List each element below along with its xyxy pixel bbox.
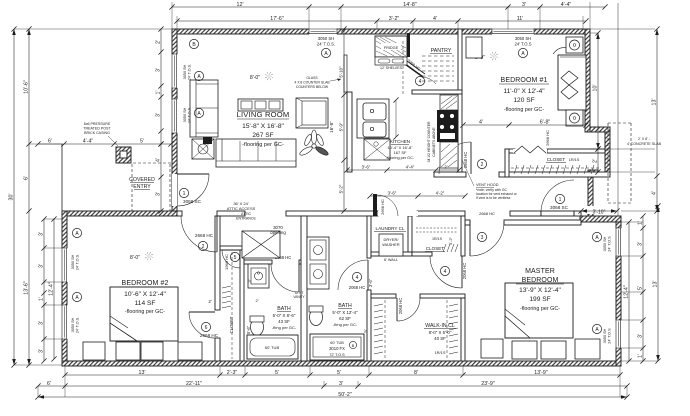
svg-text:6': 6' bbox=[24, 176, 30, 180]
svg-text:FRIDGE: FRIDGE bbox=[384, 46, 399, 50]
svg-text:TREATED POST: TREATED POST bbox=[83, 127, 111, 131]
dim bottom row1 bbox=[65, 374, 620, 376]
master bath vanity bbox=[307, 237, 329, 289]
fridge bbox=[375, 36, 407, 57]
svg-text:24' T.O.S.: 24' T.O.S. bbox=[76, 317, 80, 333]
side table bbox=[192, 139, 214, 159]
svg-text:3050 SH: 3050 SH bbox=[603, 236, 607, 251]
svg-text:2668 HC: 2668 HC bbox=[380, 199, 385, 215]
svg-text:1960 HC: 1960 HC bbox=[224, 254, 229, 270]
svg-text:VANITY: VANITY bbox=[293, 295, 305, 299]
fridge shelf bbox=[375, 57, 407, 65]
svg-text:2': 2' bbox=[593, 159, 599, 163]
svg-text:KITCHEN: KITCHEN bbox=[390, 139, 410, 144]
svg-text:1R/1S: 1R/1S bbox=[434, 350, 445, 355]
door 4b label bbox=[440, 266, 449, 275]
kitchen sink basin 2 bbox=[363, 122, 386, 137]
kitchen pass-through counter bbox=[344, 55, 347, 92]
svg-text:5': 5' bbox=[140, 139, 144, 145]
svg-text:10'-6" X 12'-4": 10'-6" X 12'-4" bbox=[124, 291, 166, 298]
dim hall bbox=[370, 195, 465, 197]
svg-text:24' T.O.S.: 24' T.O.S. bbox=[188, 64, 192, 80]
svg-text:PANTRY: PANTRY bbox=[431, 48, 452, 54]
dim porch bbox=[38, 143, 171, 145]
svg-text:3': 3' bbox=[39, 349, 45, 353]
svg-text:BEDROOM #2: BEDROOM #2 bbox=[122, 280, 169, 287]
exterior wall: back door east bbox=[588, 170, 593, 216]
porch dashed lines bbox=[118, 162, 172, 164]
svg-text:GLASS: GLASS bbox=[306, 76, 318, 80]
exterior wall: west upper (living room) bbox=[172, 29, 177, 216]
svg-text:4: 4 bbox=[419, 79, 422, 85]
svg-text:4 X 8 COUNTER SLAB: 4 X 8 COUNTER SLAB bbox=[294, 81, 330, 85]
svg-text:3050 SH: 3050 SH bbox=[603, 328, 607, 343]
window labels bedroom2 west bbox=[72, 228, 81, 237]
svg-text:50'-2": 50'-2" bbox=[338, 392, 352, 398]
svg-text:5': 5' bbox=[638, 286, 644, 290]
interior wall: closet south segment bbox=[412, 252, 432, 256]
window labels master east bbox=[592, 232, 601, 241]
svg-text:ATTIC ACCESS: ATTIC ACCESS bbox=[227, 206, 256, 211]
interior wall: laundry south bbox=[371, 252, 412, 256]
svg-text:4': 4' bbox=[652, 191, 658, 195]
svg-text:3'-6": 3'-6" bbox=[388, 191, 397, 196]
svg-text:5'-0" X 8'-6": 5'-0" X 8'-6" bbox=[273, 313, 296, 318]
svg-text:ENTRY: ENTRY bbox=[133, 184, 151, 190]
svg-text:3'-6": 3'-6" bbox=[368, 278, 373, 287]
interior wall: walkin north east part bbox=[420, 294, 465, 298]
door: pantry angled bbox=[405, 64, 423, 77]
svg-text:4'-2": 4'-2" bbox=[436, 191, 445, 196]
svg-text:3': 3' bbox=[247, 279, 252, 282]
door 4 label bbox=[352, 272, 361, 281]
svg-text:BRICK CASING: BRICK CASING bbox=[84, 131, 110, 135]
svg-text:30': 30' bbox=[9, 194, 15, 201]
svg-text:13'-9" X 12'-4": 13'-9" X 12'-4" bbox=[519, 287, 561, 294]
svg-text:8'-0": 8'-0" bbox=[250, 75, 260, 81]
door 1 label bbox=[179, 188, 188, 197]
interior wall: bedroom1 closet north west part bbox=[505, 149, 515, 153]
svg-text:1': 1' bbox=[156, 91, 162, 95]
svg-text:167 SF: 167 SF bbox=[394, 150, 407, 155]
svg-text:6x6 PRESSURE: 6x6 PRESSURE bbox=[84, 122, 111, 126]
attic access box bbox=[242, 231, 280, 258]
svg-text:16'-8": 16'-8" bbox=[329, 121, 334, 133]
svg-text:ENTRANCE: ENTRANCE bbox=[236, 217, 256, 221]
armchair bbox=[296, 98, 328, 128]
door 6: bedroom2 closet bbox=[189, 311, 215, 313]
svg-text:4: 4 bbox=[356, 275, 359, 281]
door 3 label bbox=[477, 232, 486, 241]
svg-text:62 SF: 62 SF bbox=[339, 316, 351, 321]
door 4: master bath bbox=[367, 260, 369, 290]
svg-text:43 SF: 43 SF bbox=[278, 319, 290, 324]
bedroom1 bed bbox=[558, 55, 586, 110]
svg-text:1: 1 bbox=[559, 197, 562, 203]
bedroom1 closet hangers bbox=[514, 165, 517, 174]
washer dryer bbox=[379, 234, 403, 256]
window: bedroom2 west lower bbox=[62, 305, 68, 339]
svg-text:-flooring per GC-: -flooring per GC- bbox=[520, 306, 560, 312]
svg-text:2068 HC: 2068 HC bbox=[398, 298, 403, 315]
svg-text:3': 3' bbox=[339, 381, 343, 387]
interior wall: back door south segment bbox=[510, 211, 541, 216]
svg-text:1R/1S: 1R/1S bbox=[432, 237, 443, 241]
walkin hangers west bbox=[374, 304, 383, 306]
sectional sofa bbox=[216, 139, 296, 167]
right extenders bbox=[590, 32, 598, 34]
exterior wall: NE jog top bbox=[585, 127, 610, 132]
svg-text:MASTER: MASTER bbox=[525, 268, 555, 275]
dim extension line right bbox=[617, 3, 619, 216]
svg-text:2' X 8' -: 2' X 8' - bbox=[638, 137, 651, 141]
svg-text:2668 HC: 2668 HC bbox=[479, 211, 495, 216]
svg-text:B: B bbox=[352, 343, 355, 348]
svg-text:3': 3' bbox=[638, 334, 644, 338]
svg-text:1': 1' bbox=[638, 354, 644, 358]
svg-text:6': 6' bbox=[48, 139, 52, 145]
bedroom1 dresser bbox=[466, 37, 482, 58]
bedroom1 nightstands bbox=[566, 37, 583, 53]
svg-text:3050 SH: 3050 SH bbox=[183, 107, 187, 122]
dishwasher bbox=[364, 139, 390, 160]
exterior wall: top bbox=[172, 29, 590, 34]
window: master east lower bbox=[616, 320, 622, 348]
dim right 2ft bbox=[597, 149, 599, 172]
svg-text:24' T.O.S.: 24' T.O.S. bbox=[317, 42, 335, 47]
dim left chain2 bbox=[28, 29, 30, 365]
svg-text:4: 4 bbox=[444, 269, 447, 275]
kitchen sink basin 1 bbox=[363, 103, 386, 120]
fridge wall stub bbox=[407, 33, 410, 57]
svg-text:2': 2' bbox=[208, 299, 211, 304]
svg-text:COUNTERS BELOW: COUNTERS BELOW bbox=[296, 85, 329, 89]
svg-text:BATH: BATH bbox=[277, 306, 291, 312]
svg-text:8'-0": 8'-0" bbox=[130, 255, 140, 261]
svg-text:5: 5 bbox=[234, 255, 237, 261]
svg-text:3050 SH: 3050 SH bbox=[71, 317, 75, 332]
svg-text:4': 4' bbox=[156, 158, 162, 162]
svg-text:3': 3' bbox=[156, 68, 162, 72]
svg-text:5'-0" X 12'-4": 5'-0" X 12'-4" bbox=[332, 310, 358, 315]
interior wall: closet strip north bbox=[220, 246, 244, 250]
svg-text:2'-3": 2'-3" bbox=[227, 370, 238, 376]
svg-text:2: 2 bbox=[202, 244, 205, 250]
svg-text:4': 4' bbox=[433, 16, 437, 22]
svg-text:3: 3 bbox=[481, 235, 484, 241]
svg-text:11': 11' bbox=[517, 16, 524, 22]
svg-text:6: 6 bbox=[205, 325, 208, 331]
svg-text:1': 1' bbox=[638, 221, 644, 225]
door 2b: bedroom1 from hall bbox=[470, 142, 472, 174]
svg-text:5': 5' bbox=[337, 370, 341, 376]
svg-text:23'-9": 23'-9" bbox=[481, 381, 495, 387]
dim right master inner bbox=[628, 222, 630, 361]
dim right master chain bbox=[642, 216, 644, 361]
kitchen counter dim bbox=[395, 100, 397, 137]
svg-text:-flooring per GC-: -flooring per GC- bbox=[504, 107, 544, 113]
svg-text:BEDROOM #1: BEDROOM #1 bbox=[501, 77, 548, 84]
svg-text:120 SF: 120 SF bbox=[513, 97, 534, 104]
svg-text:4'-4": 4'-4" bbox=[561, 2, 572, 8]
svg-text:114 SF: 114 SF bbox=[135, 300, 156, 307]
svg-text:3050 SH: 3050 SH bbox=[318, 36, 334, 41]
svg-text:3'-10": 3'-10" bbox=[593, 210, 606, 216]
dim left outer 30ft bbox=[13, 29, 15, 365]
hall closet hangers bbox=[443, 244, 446, 252]
dim left bedroom2 chain bbox=[43, 219, 45, 361]
window: bedroom2 west upper bbox=[62, 248, 68, 282]
svg-text:2: 2 bbox=[481, 162, 484, 168]
door 1b: back door in hall south wall bbox=[541, 211, 574, 216]
bedroom1 closet rod bbox=[511, 167, 601, 169]
interior wall: closet/bed1 south bbox=[499, 172, 610, 177]
svg-text:4'-4": 4'-4" bbox=[83, 139, 94, 145]
svg-text:6': 6' bbox=[47, 381, 51, 387]
svg-text:3': 3' bbox=[156, 113, 162, 117]
svg-text:24' T.O.S: 24' T.O.S bbox=[608, 236, 612, 252]
porch edge west bbox=[61, 144, 63, 211]
interior wall: main horizontal (attic opening to laundry) bbox=[286, 211, 378, 216]
svg-text:13'-6": 13'-6" bbox=[24, 281, 30, 295]
svg-text:-flrng per GC-: -flrng per GC- bbox=[333, 322, 358, 327]
svg-text:4' CONCRETE SLAB: 4' CONCRETE SLAB bbox=[627, 142, 662, 146]
svg-text:-flooring per GC-: -flooring per GC- bbox=[242, 142, 284, 148]
svg-text:2': 2' bbox=[156, 40, 162, 44]
porch post bbox=[116, 147, 131, 163]
door 5 label bbox=[230, 252, 239, 261]
svg-text:3'-2": 3'-2" bbox=[448, 236, 453, 245]
svg-text:-flrng per GC-: -flrng per GC- bbox=[272, 325, 297, 330]
svg-text:60' TUB: 60' TUB bbox=[265, 345, 280, 350]
svg-text:3050 SH: 3050 SH bbox=[183, 64, 187, 79]
svg-text:72' T.O.S: 72' T.O.S bbox=[329, 353, 345, 357]
pantry south wall bbox=[412, 90, 462, 94]
svg-text:2668 HC: 2668 HC bbox=[545, 130, 550, 146]
stove bbox=[437, 110, 458, 142]
svg-text:LIVING ROOM: LIVING ROOM bbox=[237, 110, 290, 119]
svg-text:34 1/2 HEIGHT COUNTER: 34 1/2 HEIGHT COUNTER bbox=[427, 121, 431, 162]
interior wall: closet strip east bbox=[240, 250, 244, 361]
dim right 13ft lower bbox=[657, 206, 659, 361]
interior wall: walkin east bbox=[461, 298, 465, 361]
svg-text:2668 HC: 2668 HC bbox=[195, 233, 214, 238]
svg-text:22'-11": 22'-11" bbox=[186, 381, 202, 387]
door: hall bath bbox=[298, 264, 300, 292]
door 4c: walk-in closet bbox=[396, 298, 398, 321]
svg-text:13': 13' bbox=[139, 370, 146, 376]
bedroom2 bed fold bbox=[110, 323, 137, 341]
interior wall: master north bbox=[504, 220, 581, 225]
master bed bbox=[505, 283, 573, 338]
ceiling fan bbox=[312, 144, 316, 148]
dim kitchen interior bbox=[347, 169, 459, 171]
window: living west upper bbox=[172, 54, 178, 88]
left extenders bbox=[14, 28, 172, 30]
interior wall: walkin north bbox=[371, 294, 396, 298]
svg-text:5'-2": 5'-2" bbox=[339, 184, 344, 193]
svg-text:3': 3' bbox=[638, 242, 644, 246]
dim bottom row2 bbox=[38, 385, 627, 387]
walkin hangers east bbox=[449, 304, 458, 306]
master nightstand boxes bbox=[481, 339, 503, 358]
svg-text:3': 3' bbox=[522, 2, 526, 8]
dim top row1 bbox=[172, 6, 605, 8]
hall bath vanity bbox=[248, 264, 269, 288]
svg-text:opening: opening bbox=[270, 230, 286, 235]
svg-text:VENT HOOD: VENT HOOD bbox=[476, 183, 499, 187]
interior wall: main horizontal west segment bbox=[177, 211, 182, 216]
window: bedroom1 top bbox=[492, 29, 534, 35]
svg-text:5'-10": 5'-10" bbox=[339, 66, 344, 78]
interior wall: master bath east bbox=[367, 216, 371, 258]
exterior wall: master east bbox=[616, 216, 621, 366]
dim 3-10 step bbox=[586, 206, 613, 214]
bedroom2 bed bbox=[110, 287, 178, 341]
svg-text:10': 10' bbox=[593, 85, 599, 92]
interior wall: kitchen west bbox=[347, 92, 352, 172]
svg-text:5'-9": 5'-9" bbox=[339, 122, 344, 131]
svg-text:14'-8": 14'-8" bbox=[403, 2, 417, 8]
svg-text:15'-8" X 16'-8": 15'-8" X 16'-8" bbox=[242, 123, 284, 130]
svg-text:24' T.O.S: 24' T.O.S bbox=[514, 42, 531, 47]
svg-text:-flooring per GC-: -flooring per GC- bbox=[125, 309, 165, 315]
dim right 13ft outer bbox=[656, 29, 658, 211]
hall bath toilet bbox=[251, 319, 264, 336]
svg-text:11'-0" X 12'-4": 11'-0" X 12'-4" bbox=[503, 88, 545, 95]
svg-text:5': 5' bbox=[363, 329, 368, 332]
door: laundry bifold bbox=[378, 211, 418, 216]
svg-text:2': 2' bbox=[256, 298, 259, 303]
svg-text:CLOSET: CLOSET bbox=[426, 246, 445, 251]
window: living room top (B) bbox=[309, 29, 337, 35]
interior wall: master north (west jamb) bbox=[465, 220, 470, 225]
exterior wall: NE jog corner bbox=[588, 170, 598, 176]
interior wall: bedroom1 closet west bbox=[505, 149, 509, 177]
svg-text:3050 SH: 3050 SH bbox=[515, 36, 531, 41]
svg-text:3068 SC: 3068 SC bbox=[183, 199, 202, 204]
svg-text:3': 3' bbox=[156, 192, 162, 196]
master bath toilet bbox=[310, 309, 323, 326]
door 6 label bbox=[201, 322, 210, 331]
bottom extenders bbox=[64, 366, 66, 397]
interior wall: bedroom1 closet north bbox=[547, 149, 605, 153]
dim living west wall chain bbox=[160, 29, 162, 144]
interior wall: main horizontal (bed2 door to attic opening) bbox=[217, 211, 245, 216]
interior wall: hall closet east bbox=[461, 216, 465, 256]
walkin rod bbox=[384, 300, 386, 359]
svg-text:40 SF: 40 SF bbox=[434, 336, 446, 341]
interior wall: back door jamb bbox=[574, 211, 581, 216]
bedroom2 nightstand boxes bbox=[83, 342, 105, 360]
kitchen sink counter bbox=[357, 99, 389, 138]
door 2: bedroom2 from hall bbox=[216, 216, 218, 252]
svg-text:4'-4": 4'-4" bbox=[406, 165, 415, 170]
svg-text:24' T.O.S: 24' T.O.S bbox=[608, 328, 612, 344]
interior wall: bedroom2 east lower bbox=[215, 338, 220, 361]
svg-text:2068 HC: 2068 HC bbox=[349, 285, 366, 290]
kitchen cabinets upper hatch bbox=[440, 95, 458, 110]
exterior wall: north of lower-left block bbox=[62, 211, 177, 216]
svg-text:6' WALL: 6' WALL bbox=[384, 258, 398, 262]
interior wall: master bath east lower bbox=[367, 290, 371, 361]
svg-text:1': 1' bbox=[39, 297, 45, 301]
svg-text:24' T.O.S.: 24' T.O.S. bbox=[76, 254, 80, 270]
svg-text:199 SF: 199 SF bbox=[529, 296, 550, 303]
exterior wall: NE jog east bbox=[605, 127, 610, 175]
svg-text:1: 1 bbox=[183, 191, 186, 197]
svg-text:12' SHELVES: 12' SHELVES bbox=[380, 66, 403, 70]
svg-text:LAUNDRY CL: LAUNDRY CL bbox=[376, 226, 405, 231]
svg-text:2668 HC: 2668 HC bbox=[200, 333, 219, 338]
svg-text:17'-6": 17'-6" bbox=[270, 16, 284, 22]
bedroom2 closet hangers bbox=[222, 286, 231, 288]
door 4b: hall closet bbox=[461, 256, 463, 288]
dim bottom row3 bbox=[38, 396, 627, 398]
master tub bbox=[310, 334, 364, 360]
dim left bedroom2 inner bbox=[53, 219, 55, 359]
interior wall: hall north / kitchen cabinets south bbox=[434, 172, 466, 177]
svg-text:13': 13' bbox=[653, 281, 659, 288]
svg-text:4': 4' bbox=[479, 120, 483, 126]
svg-text:2': 2' bbox=[444, 165, 447, 170]
exterior wall: bottom bbox=[62, 361, 621, 366]
exterior wall: west lower (bedroom 2) bbox=[62, 211, 67, 366]
exterior wall: bedroom1 east bbox=[585, 29, 590, 132]
dim top row2 bbox=[177, 20, 586, 22]
interior wall: bath/bath divider bbox=[301, 216, 307, 361]
window: master east upper bbox=[616, 228, 622, 256]
interior wall: hall bath north east bit bbox=[299, 260, 303, 264]
door 5: linen closet small bbox=[222, 249, 240, 251]
dim living interior chain bbox=[343, 29, 345, 211]
door 1: front entry (west wall living) bbox=[172, 174, 177, 206]
svg-text:24' T.O.S.: 24' T.O.S. bbox=[188, 107, 192, 123]
svg-text:3': 3' bbox=[39, 232, 45, 236]
dim right 10ft bbox=[597, 33, 599, 149]
svg-text:COVERED: COVERED bbox=[129, 177, 155, 183]
svg-text:3'-6": 3'-6" bbox=[362, 165, 371, 170]
svg-text:if vent is to be ventless: if vent is to be ventless bbox=[476, 196, 511, 200]
pantry shelves bbox=[422, 55, 454, 57]
interior wall: main horizontal (laundry to hall closet) bbox=[417, 211, 465, 216]
kitchen cabinets lower hatch bbox=[440, 142, 458, 168]
svg-text:8': 8' bbox=[414, 370, 418, 376]
svg-text:-flooring per GC-: -flooring per GC- bbox=[386, 156, 415, 160]
svg-text:13': 13' bbox=[652, 99, 658, 106]
media console bbox=[238, 99, 283, 111]
svg-text:12': 12' bbox=[237, 2, 244, 8]
svg-text:CABINETS ABOVE: CABINETS ABOVE bbox=[432, 127, 436, 157]
bedroom2 closet rod bbox=[231, 252, 233, 359]
svg-text:3068 SC: 3068 SC bbox=[550, 205, 569, 210]
svg-text:5': 5' bbox=[275, 370, 279, 376]
sofa west bbox=[190, 80, 218, 137]
dim bedroom1 south bbox=[463, 124, 586, 126]
svg-text:3'-2": 3'-2" bbox=[389, 16, 400, 22]
svg-text:CLOSET: CLOSET bbox=[229, 316, 234, 333]
svg-text:13'-9": 13'-9" bbox=[534, 370, 548, 376]
svg-text:6'-8": 6'-8" bbox=[540, 120, 551, 126]
door 1b label bbox=[555, 194, 564, 203]
svg-text:3': 3' bbox=[39, 264, 45, 268]
svg-text:2068 HC: 2068 HC bbox=[462, 263, 467, 280]
fridge alcove dashed bbox=[402, 41, 404, 95]
svg-text:10'-6": 10'-6" bbox=[24, 80, 30, 94]
closet bifold: bedroom1 bbox=[513, 149, 547, 153]
svg-text:1R/1S: 1R/1S bbox=[569, 158, 580, 162]
dim top extenders bbox=[308, 7, 310, 29]
